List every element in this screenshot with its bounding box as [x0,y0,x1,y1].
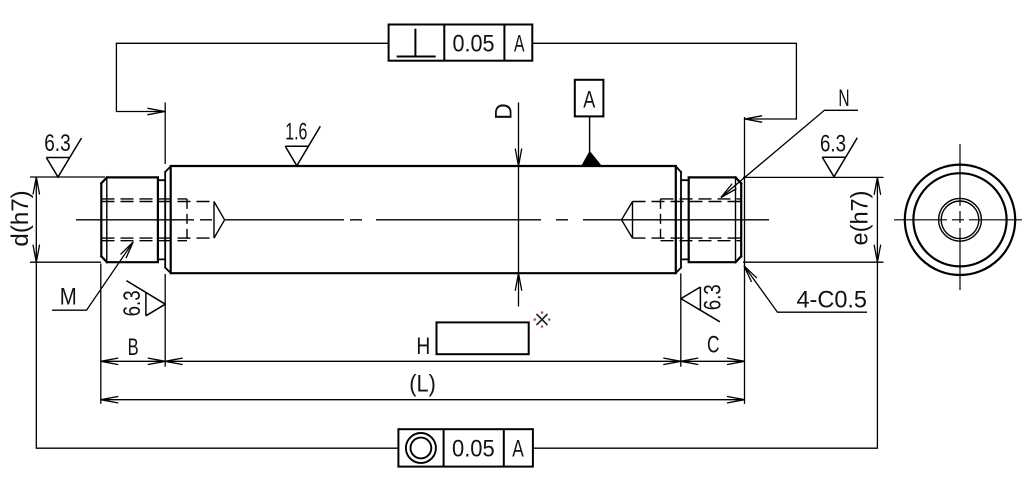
svg-text:A: A [514,31,525,58]
svg-text:A: A [583,86,595,113]
svg-text:N: N [838,85,849,112]
svg-text:6.3: 6.3 [820,130,846,157]
svg-text:4-C0.5: 4-C0.5 [797,287,868,314]
svg-text:d(h7): d(h7) [7,190,34,246]
svg-text:1.6: 1.6 [285,119,307,146]
svg-text:0.05: 0.05 [453,31,495,58]
svg-text:A: A [512,436,524,463]
svg-text:6.3: 6.3 [44,130,70,157]
svg-text:6.3: 6.3 [119,290,146,316]
svg-text:0.05: 0.05 [452,436,495,463]
svg-text:D: D [491,103,518,120]
svg-text:M: M [60,283,77,310]
svg-text:H: H [416,333,430,360]
svg-text:6.3: 6.3 [699,284,726,310]
svg-text:B: B [128,334,139,361]
svg-text:e(h7): e(h7) [847,191,874,246]
svg-text:C: C [707,332,720,359]
svg-text:(L): (L) [409,371,436,398]
